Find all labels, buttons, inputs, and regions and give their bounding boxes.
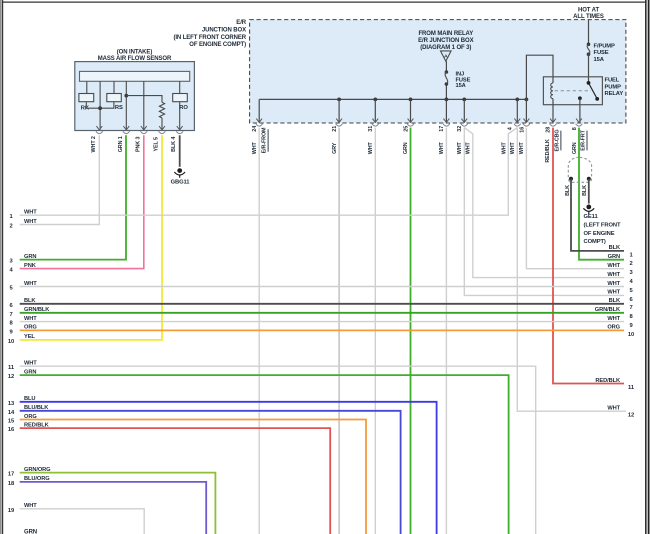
junction pin 24	[256, 119, 262, 123]
svg-text:GRN/BLK: GRN/BLK	[595, 307, 621, 313]
svg-text:15: 15	[8, 419, 15, 425]
svg-text:E/R JUNCTION BOX: E/R JUNCTION BOX	[418, 38, 474, 44]
svg-text:BLK: BLK	[565, 185, 571, 196]
svg-text:12: 12	[628, 413, 634, 419]
svg-text:RED/BLK: RED/BLK	[545, 139, 551, 162]
wire internal lead E (pin3)	[143, 81, 145, 130]
wire RED/BLK left row 16 to bottom	[20, 428, 331, 534]
wire fuse to relay switch	[588, 54, 590, 83]
svg-text:ORG: ORG	[24, 414, 37, 420]
svg-text:WHT: WHT	[607, 290, 620, 296]
wire WHT MAF pin2 to left row 2	[20, 135, 100, 224]
svg-text:MASS AIR FLOW SENSOR: MASS AIR FLOW SENSOR	[98, 56, 172, 62]
svg-text:BLK: BLK	[609, 298, 621, 304]
bus junction dots	[337, 98, 341, 102]
wire WHT left row 11 to bottom	[20, 366, 536, 534]
svg-text:BLK 4: BLK 4	[171, 137, 177, 152]
svg-text:GRY: GRY	[332, 142, 338, 154]
wire relay coil to pin 28	[552, 105, 554, 123]
fuel pump relay	[543, 77, 602, 105]
wire BLU/BLK left row 14 to bottom	[20, 411, 401, 534]
svg-text:21: 21	[332, 126, 338, 132]
junction pin 31	[372, 119, 378, 123]
wire WHT pin32 to right row 6	[464, 128, 624, 296]
junction pin 25	[408, 119, 414, 123]
svg-text:10: 10	[628, 332, 634, 338]
svg-text:18: 18	[8, 481, 15, 487]
svg-text:16: 16	[8, 427, 15, 433]
svg-text:RS: RS	[115, 105, 123, 111]
svg-text:(DIAGRAM 1 OF 3): (DIAGRAM 1 OF 3)	[420, 45, 471, 51]
wire WHT left row 19 to bottom	[20, 509, 145, 534]
svg-text:31: 31	[368, 126, 374, 132]
wire row GRN/BLK full width (left 7 / right 8)	[20, 312, 624, 314]
svg-text:PNK 3: PNK 3	[136, 137, 142, 152]
svg-text:2: 2	[629, 261, 632, 267]
svg-text:ORG: ORG	[607, 325, 620, 331]
wire WHT pin24 to bottom	[258, 128, 260, 534]
svg-text:ORG: ORG	[24, 325, 37, 331]
MAF pin 4	[177, 126, 183, 130]
junction pin 21	[336, 119, 342, 123]
relay coil	[552, 77, 554, 83]
svg-text:WHT: WHT	[252, 142, 258, 155]
svg-text:E/R-FROM: E/R-FROM	[262, 127, 268, 153]
svg-text:7: 7	[9, 312, 12, 318]
svg-text:RO: RO	[179, 105, 188, 111]
svg-text:F/PUMP: F/PUMP	[594, 43, 616, 49]
svg-text:GRN: GRN	[24, 254, 36, 260]
svg-text:GRN/BLK: GRN/BLK	[24, 307, 50, 313]
svg-text:WHT: WHT	[510, 142, 516, 155]
svg-text:15A: 15A	[594, 57, 605, 63]
junction pin 28	[550, 119, 556, 123]
svg-text:WHT: WHT	[24, 316, 37, 322]
wire riser to relay coil	[526, 55, 553, 99]
wire branch to resistor	[126, 96, 162, 103]
svg-text:WHT: WHT	[24, 210, 37, 216]
E/R junction box title	[173, 20, 246, 48]
svg-text:11: 11	[8, 365, 15, 371]
wire row BLK full width (left 6 / right 7)	[20, 303, 624, 305]
svg-text:(ON INTAKE): (ON INTAKE)	[117, 49, 153, 55]
wire PNK MAF pin3 to left row 4	[20, 135, 144, 268]
svg-text:OF ENGINE COMPT): OF ENGINE COMPT)	[189, 42, 246, 48]
wire relay contact to pin 8	[579, 98, 581, 122]
svg-text:HOT AT: HOT AT	[578, 7, 599, 13]
svg-text:4: 4	[508, 127, 514, 130]
junction pin 8	[576, 119, 582, 123]
svg-text:ALL TIMES: ALL TIMES	[573, 14, 604, 20]
svg-text:GRN: GRN	[608, 254, 620, 260]
svg-text:BLK: BLK	[24, 298, 36, 304]
wire row ORG full width (left 9 / right 10)	[20, 329, 624, 331]
svg-text:PNK: PNK	[24, 263, 37, 269]
MAF pin 3	[141, 126, 147, 130]
svg-text:BLK: BLK	[609, 245, 621, 251]
wire WHT pin4 to right row 12	[517, 128, 626, 412]
svg-text:(IN LEFT FRONT CORNER: (IN LEFT FRONT CORNER	[173, 35, 246, 41]
svg-text:GRN/ORG: GRN/ORG	[24, 467, 51, 473]
wire GRN/ORG left row 17 to bottom	[20, 473, 216, 534]
svg-text:WHT: WHT	[24, 281, 37, 287]
svg-text:25: 25	[403, 126, 409, 132]
sensor element RK	[79, 94, 94, 102]
MAF pin 1	[123, 126, 129, 130]
wire BLK MAF pin4 to ground	[179, 135, 181, 167]
MAF pin 2	[96, 126, 102, 130]
sensor element RO	[173, 94, 188, 102]
svg-text:E/R: E/R	[236, 20, 246, 26]
svg-text:11: 11	[628, 385, 635, 391]
in-line connector at GE11	[568, 157, 591, 182]
svg-text:FUEL: FUEL	[605, 77, 620, 83]
svg-text:17: 17	[8, 472, 14, 478]
svg-text:YEL: YEL	[24, 334, 35, 340]
svg-text:12: 12	[8, 374, 14, 380]
svg-text:WHT 2: WHT 2	[91, 136, 97, 152]
wire row WHT full width (left 5 / right 5)	[20, 286, 624, 288]
svg-text:RED/BLK: RED/BLK	[24, 422, 50, 428]
wire GRN left row 12 to bottom	[20, 375, 509, 534]
junction pin 17	[444, 119, 450, 123]
connector junction dots	[569, 177, 573, 181]
svg-text:10: 10	[8, 339, 14, 345]
junction pin 4	[514, 119, 520, 123]
MAF internal element strip	[80, 71, 190, 81]
svg-text:FUSE: FUSE	[594, 50, 609, 56]
svg-text:RELAY: RELAY	[605, 91, 624, 97]
svg-text:GRN: GRN	[403, 142, 409, 154]
sensor element RS	[107, 94, 122, 102]
junction on lead D	[124, 94, 128, 98]
junction pin 16	[524, 119, 530, 123]
wire internal lead B (pin2)	[99, 81, 101, 130]
svg-text:WHT: WHT	[24, 361, 37, 367]
relay actuation dashed link	[555, 90, 591, 92]
svg-text:7: 7	[629, 305, 632, 311]
svg-text:GRN 1: GRN 1	[118, 136, 124, 152]
svg-text:WHT: WHT	[439, 142, 445, 155]
wire BLU/ORG left row 18 to bottom	[20, 482, 207, 534]
svg-text:GE11: GE11	[584, 214, 599, 220]
mass air flow sensor (on intake)	[75, 62, 195, 131]
bus drop wires to pins	[258, 99, 260, 122]
svg-text:WHT: WHT	[368, 142, 374, 155]
svg-text:BLU/BLK: BLU/BLK	[24, 405, 49, 411]
svg-text:PUMP: PUMP	[605, 84, 622, 90]
wire GRY pin21 to bottom	[338, 128, 340, 534]
svg-text:COMPT): COMPT)	[584, 239, 606, 245]
svg-text:24: 24	[252, 126, 258, 132]
wire hot feed to fuse	[588, 19, 590, 44]
svg-text:BLK: BLK	[582, 185, 588, 196]
svg-text:WHT: WHT	[607, 272, 620, 278]
wire internal lead A	[86, 81, 88, 93]
wire internal lead F (pin4 via RO)	[179, 81, 181, 93]
ground GE11	[586, 205, 591, 210]
wire WHT pin16 to right row 3	[526, 128, 624, 269]
svg-text:WHT: WHT	[607, 316, 620, 322]
svg-text:8: 8	[572, 127, 578, 130]
wire WHT pin31 to bottom	[374, 128, 376, 534]
svg-text:WHT: WHT	[607, 406, 620, 412]
svg-text:YEL 5: YEL 5	[153, 137, 159, 152]
svg-text:JUNCTION BOX: JUNCTION BOX	[202, 28, 246, 34]
bus wire from main relay	[259, 98, 526, 100]
svg-text:14: 14	[8, 410, 15, 416]
svg-text:17: 17	[439, 126, 445, 132]
wire GRN pin8 to right row 2	[579, 128, 624, 260]
wire triangle to bus	[445, 61, 447, 72]
svg-text:WHT: WHT	[466, 142, 472, 155]
wire GRN pin25 to bottom	[410, 128, 412, 534]
wire RED/BLK pin28 to right row 11	[553, 128, 624, 384]
svg-text:(LEFT FRONT: (LEFT FRONT	[584, 222, 621, 228]
svg-text:OF ENGINE: OF ENGINE	[584, 231, 615, 237]
svg-text:32: 32	[457, 126, 463, 132]
svg-text:BLU/ORG: BLU/ORG	[24, 476, 50, 482]
svg-text:FROM MAIN RELAY: FROM MAIN RELAY	[418, 31, 473, 37]
wire BLU left row 13 to bottom	[20, 402, 437, 534]
wire WHT pin17 to bottom	[445, 128, 447, 534]
F/PUMP fuse 15A	[587, 43, 591, 47]
wire row WHT full width (left 8 / right 9)	[20, 321, 624, 323]
svg-text:16: 16	[520, 127, 526, 133]
svg-text:RED/BLK: RED/BLK	[595, 378, 621, 384]
relay switch	[587, 81, 591, 85]
wire WHT pin32 branch to right row 4	[464, 128, 624, 278]
svg-text:GRN: GRN	[24, 530, 37, 534]
wire internal lead D (pin1)	[125, 81, 127, 130]
svg-text:GRN: GRN	[572, 142, 578, 154]
svg-text:28: 28	[545, 127, 551, 133]
svg-text:19: 19	[8, 508, 15, 514]
junction pin 32	[461, 119, 467, 123]
svg-text:WHT: WHT	[24, 503, 37, 509]
svg-text:2: 2	[9, 224, 12, 230]
svg-text:BLU: BLU	[24, 396, 35, 402]
svg-text:GRN: GRN	[24, 369, 36, 375]
wire YEL MAF pin5 to left row 10	[20, 135, 162, 340]
wire GRN MAF pin1 to left row 3	[20, 135, 126, 259]
svg-text:WHT: WHT	[24, 219, 37, 225]
svg-text:15A: 15A	[456, 83, 466, 89]
resistor (MAF internal)	[159, 102, 164, 118]
junction on lead B	[98, 106, 102, 110]
E/R junction box	[250, 20, 626, 123]
wire RK/RS bottom link	[86, 102, 114, 109]
svg-text:WHT: WHT	[501, 142, 507, 155]
wire ORG left row 15 to bottom	[20, 420, 366, 534]
wire BLK connector to right row 1	[571, 179, 624, 251]
svg-text:WHT: WHT	[607, 263, 620, 269]
svg-text:13: 13	[8, 401, 15, 407]
svg-text:GBG11: GBG11	[171, 179, 191, 185]
wire WHT pin4 branch to left row 1	[20, 128, 518, 216]
svg-text:E/R-FRT: E/R-FRT	[581, 129, 587, 150]
ground GBG11	[177, 168, 182, 173]
MAF pin 5	[159, 126, 165, 130]
svg-text:WHT: WHT	[457, 142, 463, 155]
svg-text:WHT: WHT	[607, 281, 620, 287]
INJ fuse 15A	[445, 70, 449, 74]
svg-text:WHT: WHT	[519, 142, 525, 155]
svg-text:E/R-CBG: E/R-CBG	[555, 129, 561, 151]
wire BLK connector to ground GE11	[588, 179, 590, 204]
wire internal lead C	[113, 81, 115, 93]
wire resistor to pin5	[161, 118, 163, 130]
